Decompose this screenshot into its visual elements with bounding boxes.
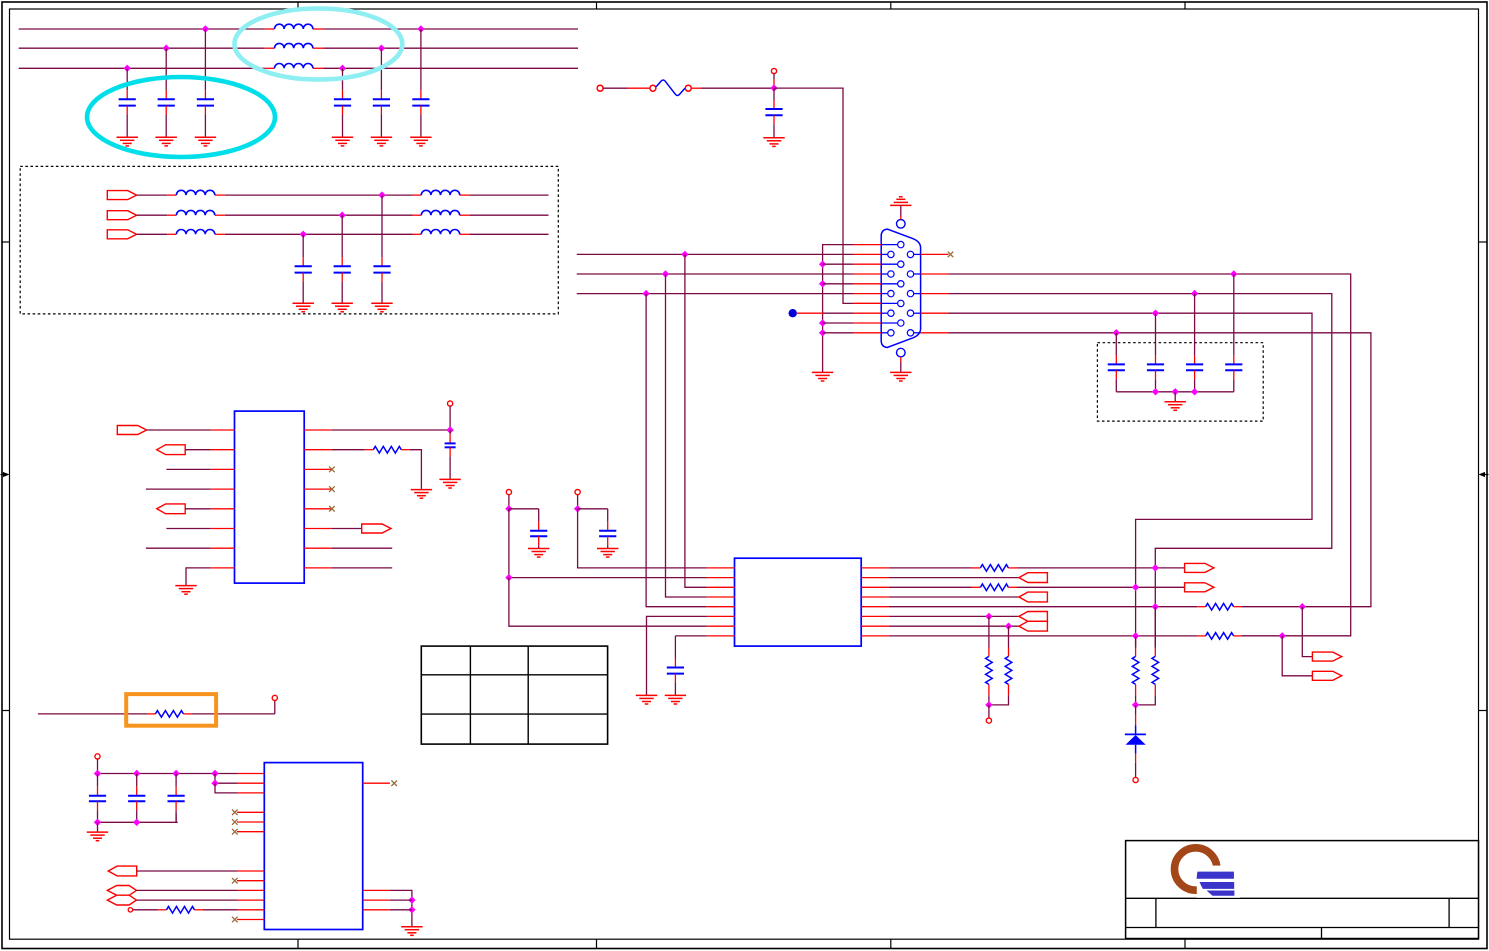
frame zone ticks top/bottom [298, 2, 1185, 949]
ground right of U3 [401, 927, 422, 936]
wire U2 pin8 corner [675, 635, 706, 637]
wire DB15 right2 to drop [949, 274, 1351, 636]
junction on rail at x=127.2 [124, 65, 131, 72]
decoupling capacitor C at x=538.7 [530, 509, 547, 549]
terminal circle U3 pin11 [128, 908, 132, 912]
dashed box around input filter [20, 166, 558, 314]
inductor on rail L1 [275, 24, 313, 29]
pull resistor pair2 left leads [1135, 636, 1137, 657]
wire into series resistor [38, 713, 155, 715]
output port lower1 [1312, 652, 1341, 661]
wire terminal to fuse [603, 87, 650, 89]
junction cap bus at x=1194.6 [1191, 388, 1198, 395]
wire power pin down [449, 406, 451, 430]
wire blue dot to DB15 left pin4 [797, 312, 854, 314]
junction ground bus row 264.2 [819, 261, 826, 268]
U2 row3 wire to resistor [889, 586, 981, 588]
output port U1 pin11 [362, 524, 391, 533]
inductor on rail L3 [275, 63, 313, 68]
U2 row1 resistor to port wire [1008, 567, 1184, 569]
no-connect U1 pin12 [329, 506, 335, 512]
input port U1 pin1 [117, 426, 146, 435]
resistor Rv1b [1005, 656, 1012, 684]
small capacitor at U1 pin16 [445, 430, 456, 479]
U1 right pin stubs [304, 430, 332, 568]
power pin VCC1 [506, 490, 511, 495]
U2 row3 resistor to port wire [1008, 586, 1184, 588]
wire cap bus to ground [97, 822, 99, 832]
wire after second inductor row 1 [469, 194, 548, 196]
U2 row1 wire to resistor [889, 567, 981, 569]
wire VCC2 down to U2 pin1 [578, 509, 707, 568]
wire row5 junction down to port [1302, 607, 1312, 657]
bypass capacitor at x=176.1 [168, 774, 185, 823]
junction row8 [1132, 632, 1139, 639]
wire hex port to U3 pin9 [137, 889, 238, 891]
resistor R row5 [1206, 603, 1234, 610]
wire pair2 right bottom corner [1154, 684, 1156, 695]
filter capacitor at x=382.0 [373, 195, 390, 303]
wire rail L2 right segment [323, 47, 578, 49]
port U3 pin7 [108, 866, 137, 876]
junction on filter row at x=303.2 [300, 231, 307, 238]
U3 left pin stubs [237, 774, 264, 920]
junction row6 [985, 613, 992, 620]
junction U3 right row3 [408, 906, 415, 913]
first inductor row 1 [176, 190, 214, 195]
DB15 pin circles [881, 241, 920, 336]
junction cap bus at x=1175.2 [1172, 388, 1179, 395]
wire port to U3 pin7 [137, 870, 237, 872]
junction U3 right row2 [408, 896, 415, 903]
wire VCC1 down to U2 pin7 [509, 578, 707, 627]
logo blue bar2 [1200, 882, 1235, 889]
ground below capacitor U1 pin16 [439, 479, 460, 488]
junction on rail at x=166.2 [163, 45, 170, 52]
junction U3 rail x=97.5 [94, 770, 101, 777]
inductor row 3 stubs [167, 233, 225, 235]
wire fuse junction to DB15 pin 4 (mid) [774, 88, 854, 303]
junction net C [642, 290, 649, 297]
DB15 right pin stubs [921, 254, 949, 332]
bypass capacitor at x=97.5 [89, 774, 106, 823]
ground below capacitor x=205.4 [195, 137, 216, 146]
wire port to U1 pin1 [147, 429, 211, 431]
first inductor row 2 [176, 210, 214, 215]
frame center arrow right [1479, 472, 1489, 477]
junction U3 rail x=176.1 [172, 770, 179, 777]
no-connect U3 pin4 [232, 810, 238, 816]
termination capacitor at x=1116.3 [1108, 333, 1125, 392]
wire after second inductor row 2 [469, 214, 548, 216]
wire pair1 to power circle [988, 705, 990, 718]
ground below filter capacitor x=382.0 [371, 303, 392, 312]
ground below fuse capacitor [763, 138, 784, 147]
output port lower2 [1312, 671, 1341, 680]
wire row8 junction down to port [1282, 636, 1312, 676]
wire power pin to junction [773, 74, 775, 89]
IC U2 body [735, 558, 862, 646]
pull resistor pair1 right leads [1008, 626, 1010, 656]
wire resistor to ground corner [410, 450, 422, 490]
no-connect U1 pin13 [329, 486, 335, 492]
wire resistor to U3 pin11 [195, 909, 238, 911]
wire U2 row2 to port [889, 577, 1019, 579]
wire rail branch to U3 pin3 [215, 783, 237, 793]
no-connect U3 right pin [391, 780, 397, 786]
power terminal circle left [597, 85, 603, 91]
wire net C to DB15 left pin3 row [577, 293, 854, 295]
junction right2 cap4 [1230, 270, 1237, 277]
wire rail L2 left segment [19, 47, 265, 49]
ground below filter capacitor x=303.2 [293, 303, 314, 312]
resistor Rv2b [1152, 656, 1159, 684]
wire cap bus ground stem [1174, 392, 1176, 402]
DB15 mounting hole bottom [897, 348, 906, 357]
wire net A to DB15 left pin1 row [577, 253, 854, 255]
U2 row5 resistor right wire [1234, 606, 1242, 608]
title block box [1126, 841, 1479, 939]
wire ground bus lower stem [822, 362, 824, 372]
ground for U1 pin8 [175, 586, 196, 595]
capacitor to ground at x=342.5 [334, 68, 351, 137]
ground below capacitor x=420.9 [410, 137, 431, 146]
wire DB15 ground bus [823, 245, 854, 362]
wire terminal to resistor [133, 909, 167, 911]
wire U2 row4 to port [889, 596, 1019, 598]
resistor R row3 [980, 584, 1008, 591]
diode D1 bottom lead [1135, 745, 1137, 778]
resistor at U3 pin11 [167, 907, 195, 914]
junction cap bus mid [133, 819, 140, 826]
DB15 left pin stubs [854, 245, 881, 333]
power pin U3 rail [95, 754, 100, 759]
wire rail L3 left segment [19, 67, 265, 69]
bidirectional port U3 pin10 [107, 895, 136, 905]
wire rail L1 right segment [323, 28, 578, 30]
junction U3 rail x=136.7 [133, 770, 140, 777]
junction on rail at x=381.4 [378, 45, 385, 52]
U3 right pin stubs [363, 783, 390, 910]
wire stub U1 pin4 [146, 488, 211, 490]
junction cap bus left [94, 819, 101, 826]
wire bottom mounting hole to ground [900, 357, 902, 372]
ground for cap bank [1165, 402, 1186, 411]
inductor L1 filter red stubs [265, 28, 323, 30]
inductor L3 filter red stubs [265, 67, 323, 69]
wire U2 row7 to port [889, 625, 1019, 627]
ground below capacitor x=166.2 [156, 137, 177, 146]
wire ground bus branch 332.8 [823, 332, 854, 334]
connector J1 DB15 body [881, 229, 920, 347]
pull resistor pair1 left leads [988, 616, 990, 656]
frame zone ticks left/right [2, 242, 1487, 711]
bidirectional port U3 pin9 [107, 886, 136, 896]
resistor right red stub U1 pin15 [401, 449, 410, 451]
junction net A [681, 251, 688, 258]
junction at fuse output [770, 84, 777, 91]
U2 left pin stubs [707, 568, 735, 636]
power pin above U1 pin16 [448, 401, 453, 406]
junction cap bus at x=1155.5 [1152, 388, 1159, 395]
U2 row8 wire [889, 635, 1206, 637]
wire stub U1 pin10 [332, 547, 392, 549]
wire U3 power rail [98, 773, 238, 775]
junction row5 right [1299, 603, 1306, 610]
capacitor to ground at x=420.9 [412, 29, 429, 137]
ground below capacitor x=607.7 [597, 549, 618, 558]
no-connect U3 pin8 [232, 878, 238, 884]
wire U1 pin8 to ground [186, 568, 211, 586]
input port row 1 [107, 191, 136, 200]
DB15 mid pin4 red stub [854, 302, 881, 304]
termination capacitor at x=1155.5 [1147, 313, 1164, 392]
ground below capacitor x=675.4 [665, 695, 686, 704]
no-connect U1 pin14 [329, 467, 335, 473]
wire hex port to U3 pin10 [137, 899, 238, 901]
ground below filter capacitor x=342.2 [332, 303, 353, 312]
diode D1 [1125, 734, 1146, 744]
ground below DB15 [890, 372, 911, 381]
earth ground above DB15 [890, 197, 911, 206]
diode D1 top lead [1135, 705, 1137, 735]
IC U3 body [264, 763, 362, 930]
no-connect U3 pin6 [232, 829, 238, 835]
pull resistor pair2 left bottom lead [1135, 684, 1137, 705]
junction row7 [1005, 623, 1012, 630]
inductor row 2 stubs [167, 214, 225, 216]
junction VCC1 [505, 505, 512, 512]
frame center arrow left [1, 472, 10, 477]
cyan highlight ellipse around rail inductors [234, 9, 402, 80]
fuse F1 [650, 80, 691, 95]
filter capacitor at x=303.2 [295, 234, 312, 303]
wire U1 pin11 to port [332, 528, 362, 530]
dashed box around termination capacitors [1097, 343, 1263, 421]
output port row3 [1185, 583, 1214, 592]
wire ground bus branch 283.8 [823, 283, 854, 285]
wire DB15 right3 to drop [949, 294, 1332, 648]
wire VCC1 to cap [509, 508, 539, 510]
wire cap3 bottom corner [175, 814, 177, 822]
wire U1 pin16 to power node [332, 429, 450, 431]
no-connect U3 pin12 [232, 917, 238, 923]
junction U1 pin16 [446, 426, 453, 433]
wire stub U1 pin9 [332, 567, 392, 569]
wire port to U1 pin5 [185, 508, 211, 510]
DB15 mounting hole top [897, 220, 906, 229]
U2 row8 resistor right wire [1234, 635, 1242, 637]
junction U3 pin2 branch [211, 780, 218, 787]
port U1 pin5 [157, 504, 186, 514]
filter capacitor at x=342.2 [334, 215, 351, 303]
ground below capacitor x=538.7 [528, 549, 549, 558]
IC U1 body [235, 411, 305, 583]
input port row 2 [107, 211, 136, 220]
second inductor row 1 [421, 190, 459, 195]
bypass capacitor at x=136.7 [128, 774, 145, 823]
wire port to inductor row 1 [137, 194, 168, 196]
series resistor in orange box [155, 711, 183, 718]
wire between inductors row 2 [225, 214, 413, 216]
wire DB15 right5 to drop [949, 333, 1371, 607]
no-connect on DB15 right pin1 [948, 252, 954, 258]
no-connect U3 pin5 [232, 819, 238, 825]
junction right3 cap3 [1191, 290, 1198, 297]
capacitor to ground at x=205.4 [197, 29, 214, 137]
wire DB15 right4 to drop [949, 313, 1313, 647]
inductor L2 filter red stubs [265, 47, 323, 49]
junction VCC1 at pin2 row [505, 574, 512, 581]
junction ground bus row 332.8 [819, 329, 826, 336]
wire port to U1 pin2 [185, 449, 211, 451]
wire VCC2 to cap [578, 508, 608, 510]
first inductor row 3 [176, 230, 214, 235]
junction pair2 bottom [1132, 701, 1139, 708]
wire stub U1 pin3 [166, 468, 210, 470]
junction row5 [1152, 603, 1159, 610]
wire rail branch to U3 pin2 [215, 774, 237, 784]
pull resistor pair1 left bottom lead [988, 684, 990, 705]
ground below capacitor x=381.4 [371, 137, 392, 146]
resistor at U1 pin15 [373, 446, 401, 453]
wire VCC2 to junction [577, 495, 579, 509]
wire ground bus branch 323.0 [823, 322, 854, 324]
junction ground bus row 323.0 [819, 319, 826, 326]
wire U3 right row3 branch [390, 909, 412, 911]
ground below capacitor x=342.5 [332, 137, 353, 146]
wire VCC1 to junction [508, 495, 510, 509]
junction U3 rail x=215.0 [211, 770, 218, 777]
junction pair1 bottom [985, 701, 992, 708]
junction on rail at x=342.5 [339, 65, 346, 72]
wire U2 pin6 to ground [647, 616, 707, 695]
U2 row5 wire [889, 606, 1206, 608]
wire power pin to rail [97, 759, 99, 774]
wire resistor to terminal [183, 701, 274, 714]
U1 left pin stubs [211, 430, 235, 568]
wire net C drop to U2 pin5 [646, 294, 707, 607]
table grid [421, 646, 607, 744]
wire after second inductor row 3 [469, 233, 548, 235]
input port row 3 [107, 230, 136, 239]
junction on filter row at x=382.0 [378, 191, 385, 198]
junction row1 port net [1152, 564, 1159, 571]
termination capacitor at x=1233.8 [1225, 274, 1242, 392]
wire U3 cap bottom bus [98, 821, 178, 823]
ground below capacitor x=127.2 [117, 137, 138, 146]
capacitor at fuse output [765, 88, 782, 138]
wire between inductors row 1 [225, 194, 413, 196]
resistor Rv2a [1132, 656, 1139, 684]
inductor on rail L2 [275, 43, 313, 48]
wire stub U1 pin6 [166, 528, 210, 530]
wire fuse to junction [691, 87, 774, 89]
logo ring [1175, 848, 1217, 890]
wire rail L3 right segment [323, 67, 578, 69]
ground for U2 pin6 [636, 695, 657, 704]
second inductor row 1 stubs [413, 194, 470, 196]
logo blue bar3 [1207, 891, 1235, 896]
wire net B drop to U2 pin4 [666, 274, 707, 597]
wire net A drop to U2 pin3 [685, 254, 707, 587]
second inductor row 2 stubs [413, 214, 470, 216]
port U1 pin2 [157, 445, 186, 455]
wire net B to DB15 left pin2 row [577, 273, 854, 275]
port U2 row6 [1019, 612, 1048, 622]
wire U3 right row2 branch [390, 899, 412, 901]
ground below U3 caps [87, 832, 108, 841]
capacitor to ground at x=166.2 [158, 48, 175, 137]
wire VCC1 down to U2 pin2 [509, 509, 707, 578]
ground for DB15 shell bus [812, 372, 833, 381]
port U2 row2 [1019, 573, 1048, 583]
junction net B [662, 270, 669, 277]
junction on rail at x=420.9 [417, 25, 424, 32]
wire pair1 right bottom corner [1008, 684, 1010, 695]
junction row3 port net [1132, 584, 1139, 591]
orange highlight box [126, 694, 216, 726]
termination capacitor at x=1194.6 [1186, 294, 1203, 392]
wire stub U1 pin7 [146, 547, 211, 549]
wire U3 right pins join [390, 890, 412, 926]
port U2 row7 [1019, 621, 1048, 631]
inductor row 1 stubs [167, 194, 225, 196]
second inductor row 3 [421, 230, 459, 235]
junction VCC2 [574, 505, 581, 512]
second inductor row 2 [421, 210, 459, 215]
power pin above fuse junction [771, 68, 776, 73]
ground below U1 pin15 resistor [411, 490, 432, 499]
output port row1 [1185, 563, 1214, 572]
wire port to inductor row 3 [137, 233, 168, 235]
capacitor to ground at x=127.2 [119, 68, 136, 137]
junction on rail at x=205.4 [202, 25, 209, 32]
resistor Rv1a [986, 656, 993, 684]
junction ground bus row 283.8 [819, 280, 826, 287]
junction right4 cap2 [1152, 310, 1159, 317]
resistor R row1 [980, 565, 1008, 572]
terminal circle right of orange box [272, 695, 277, 700]
wire ground bus branch 264.2 [823, 263, 854, 265]
junction on filter row at x=342.2 [339, 212, 346, 219]
capacitor below U2 pin8 [667, 636, 684, 695]
cyan highlight ellipse around left capacitor group [87, 77, 275, 157]
wire pair1 bottom join [989, 695, 1009, 705]
logo white notch [1197, 866, 1240, 898]
second inductor row 3 stubs [413, 233, 470, 235]
wire between inductors row 3 [225, 233, 413, 235]
resistor R row8 [1206, 633, 1234, 640]
logo blue bar1 [1197, 872, 1234, 879]
wire cap bank bottom bus [1116, 391, 1234, 393]
pull resistor pair2 right leads [1154, 607, 1156, 657]
capacitor to ground at x=381.4 [373, 48, 390, 137]
power pin below pair1 [986, 718, 991, 723]
junction right5 cap1 [1113, 329, 1120, 336]
wire pair2 bottom join [1136, 695, 1156, 705]
wire port to inductor row 2 [137, 214, 168, 216]
port U2 row4 [1019, 592, 1048, 602]
wire ground to top mounting hole [900, 205, 902, 219]
wire rail L1 left segment [19, 28, 265, 30]
decoupling capacitor C at x=607.7 [599, 509, 616, 549]
wire U1 pin15 to resistor [332, 449, 373, 451]
power pin below diode [1133, 777, 1138, 782]
junction row8 right [1279, 632, 1286, 639]
wire U2 row6 to port [889, 615, 1019, 617]
U2 right pin stubs [861, 568, 889, 636]
